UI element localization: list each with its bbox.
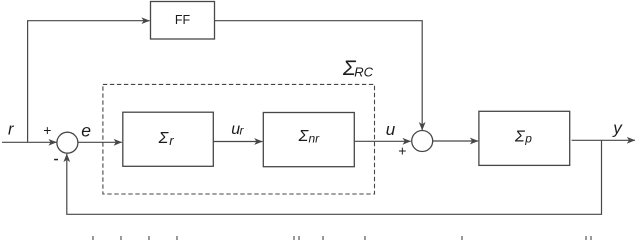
label minus (junction 1) [54,159,58,161]
wire: branch from r up and right to FF [28,21,150,143]
svg-text:r: r [8,121,15,139]
wire: junction 2 to Sigma_p [433,140,478,142]
svg-text:e: e [81,121,91,141]
wire: u_r line [213,141,262,143]
dashed box Sigma_RC [103,84,375,194]
wire: output y line [572,139,635,141]
wire: feedback loop [67,140,602,214]
block Sigma_nr [263,113,354,167]
svg-text:+: + [398,142,406,158]
wire: e line to Sigma_r [78,141,122,143]
summing junction 2 [412,131,433,152]
wire: FF output to junction 2 top [215,21,422,131]
block Sigma_r [123,112,214,166]
svg-text:y: y [612,119,623,138]
svg-text:nr: nr [309,132,321,146]
summing junction 1 [57,132,78,153]
svg-text:Σ: Σ [514,128,526,145]
svg-text:+: + [43,122,51,138]
svg-text:u: u [386,120,396,139]
svg-text:Σ: Σ [158,130,170,147]
block FF [151,2,215,40]
wire: u line to junction 2 [354,140,411,142]
svg-text:FF: FF [175,13,191,27]
svg-text:RC: RC [354,65,373,80]
svg-text:r: r [240,124,245,138]
wire: r input line [2,141,57,143]
block Sigma_p [479,111,570,165]
svg-text:p: p [524,131,532,145]
svg-text:r: r [169,133,174,148]
caption fragments (cut-off text at bottom) [92,236,592,240]
